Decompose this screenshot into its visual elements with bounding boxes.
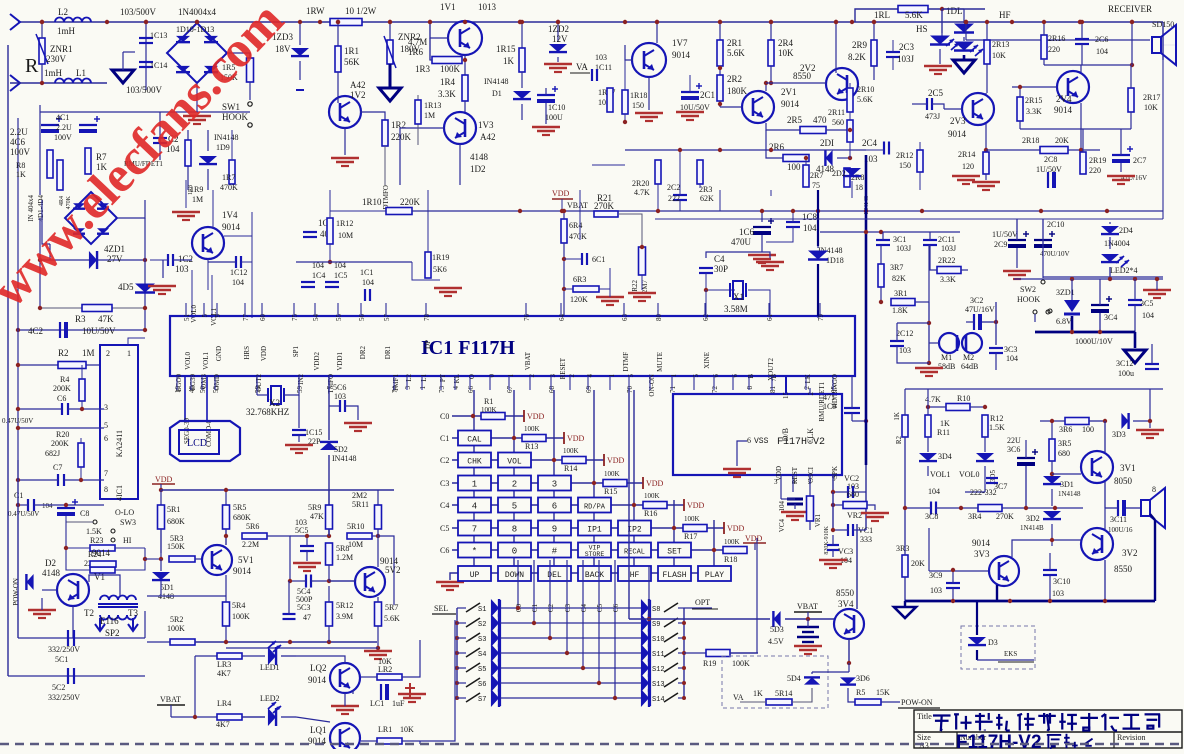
svg-text:1M: 1M	[192, 195, 203, 204]
svg-text:50: 50	[199, 386, 207, 394]
svg-text:2R4: 2R4	[778, 38, 794, 48]
svg-text:2C8: 2C8	[1044, 155, 1057, 164]
svg-text:333: 333	[860, 535, 872, 544]
svg-text:5.6K: 5.6K	[727, 48, 745, 58]
svg-text:471: 471	[823, 393, 835, 402]
svg-text:2R2: 2R2	[727, 74, 742, 84]
svg-text:6: 6	[747, 436, 751, 445]
svg-text:3C4: 3C4	[1104, 313, 1117, 322]
svg-text:67: 67	[506, 386, 514, 394]
svg-text:1M: 1M	[424, 111, 435, 120]
svg-text:1K: 1K	[940, 419, 950, 428]
svg-text:3C1: 3C1	[893, 235, 906, 244]
svg-text:53: 53	[212, 386, 220, 394]
svg-text:4K7: 4K7	[217, 669, 231, 678]
svg-text:KL: KL	[453, 374, 461, 383]
svg-text:2R1: 2R1	[727, 38, 742, 48]
svg-text:103J: 103J	[897, 54, 915, 64]
svg-text:104: 104	[334, 261, 346, 270]
svg-text:71: 71	[669, 386, 677, 394]
svg-text:5C2: 5C2	[52, 683, 65, 692]
svg-text:76: 76	[523, 314, 531, 322]
svg-text:L1: L1	[76, 68, 86, 78]
svg-text:S9: S9	[652, 621, 660, 629]
svg-text:F117H-V2: F117H-V2	[956, 732, 1042, 749]
svg-text:2.2U: 2.2U	[10, 127, 28, 137]
svg-text:2R7: 2R7	[810, 171, 823, 180]
svg-text:220K: 220K	[391, 132, 412, 142]
svg-text:470U: 470U	[731, 237, 752, 247]
svg-text:103: 103	[1052, 589, 1064, 598]
svg-text:3.9M: 3.9M	[336, 612, 353, 621]
svg-text:4C6: 4C6	[10, 137, 26, 147]
svg-text:2R3: 2R3	[699, 185, 712, 194]
svg-text:9014: 9014	[781, 99, 800, 109]
svg-text:VDD: VDD	[607, 456, 625, 465]
svg-text:12V: 12V	[552, 34, 568, 44]
svg-text:1V2: 1V2	[350, 90, 366, 100]
svg-text:1V1: 1V1	[440, 2, 456, 12]
svg-text:104: 104	[778, 501, 786, 512]
svg-text:70: 70	[626, 386, 634, 394]
svg-text:9014: 9014	[222, 222, 241, 232]
svg-text:270K: 270K	[996, 512, 1014, 521]
svg-text:5C3: 5C3	[297, 603, 310, 612]
svg-text:9014: 9014	[308, 675, 327, 685]
svg-text:3D6: 3D6	[856, 674, 870, 683]
svg-text:LK: LK	[804, 374, 812, 383]
svg-text:2R9: 2R9	[852, 40, 868, 50]
svg-text:LED1: LED1	[260, 663, 280, 672]
svg-text:4K7: 4K7	[216, 720, 230, 729]
svg-text:SW3: SW3	[120, 518, 136, 527]
svg-text:5.6K: 5.6K	[384, 614, 400, 623]
svg-text:7: 7	[472, 525, 477, 535]
svg-text:2V1: 2V1	[781, 87, 797, 97]
svg-text:6: 6	[731, 374, 739, 378]
svg-text:200K: 200K	[53, 384, 71, 393]
svg-text:2R18: 2R18	[1022, 136, 1039, 145]
svg-text:82K: 82K	[892, 274, 906, 283]
svg-text:1C6: 1C6	[739, 227, 755, 237]
svg-text:75: 75	[291, 314, 299, 322]
svg-text:1K: 1K	[893, 412, 901, 421]
svg-text:9014: 9014	[672, 50, 691, 60]
svg-text:3D1: 3D1	[1060, 480, 1074, 489]
svg-text:10M: 10M	[348, 540, 363, 549]
svg-text:IC1 F117H: IC1 F117H	[421, 337, 515, 359]
svg-text:A42: A42	[480, 132, 496, 142]
svg-text:1K: 1K	[503, 56, 515, 66]
svg-text:104: 104	[803, 223, 817, 233]
svg-text:R22: R22	[631, 280, 639, 292]
svg-text:R3: R3	[75, 314, 86, 324]
svg-text:VDD: VDD	[260, 346, 268, 361]
svg-text:100K: 100K	[232, 612, 250, 621]
svg-text:S13: S13	[652, 681, 665, 689]
svg-text:VC4: VC4	[778, 519, 786, 533]
svg-text:1C8: 1C8	[802, 212, 818, 222]
svg-text:1K: 1K	[16, 170, 26, 179]
svg-text:560: 560	[832, 118, 844, 127]
svg-text:C1: C1	[440, 434, 449, 443]
svg-text:1: 1	[419, 386, 427, 390]
svg-text:8050: 8050	[1114, 476, 1133, 486]
svg-text:SET: SET	[667, 548, 682, 557]
svg-text:3C8: 3C8	[925, 512, 938, 521]
svg-text:9: 9	[214, 314, 222, 318]
svg-text:4IC1: 4IC1	[115, 485, 124, 501]
svg-text:103J: 103J	[941, 244, 956, 253]
svg-text:120: 120	[962, 162, 974, 171]
svg-text:1C15: 1C15	[305, 428, 322, 437]
svg-text:CAL: CAL	[467, 436, 482, 445]
svg-text:2DI: 2DI	[820, 138, 834, 148]
svg-text:LC1: LC1	[370, 699, 384, 708]
svg-text:51: 51	[183, 314, 191, 322]
svg-text:C6: C6	[57, 394, 66, 403]
svg-text:0.47U/50V: 0.47U/50V	[8, 510, 39, 518]
svg-text:SP2: SP2	[105, 628, 120, 638]
svg-text:C1: C1	[531, 604, 539, 613]
svg-text:5V1: 5V1	[238, 555, 254, 565]
svg-text:VDD: VDD	[552, 189, 570, 198]
svg-text:3R7: 3R7	[890, 263, 903, 272]
svg-text:10K: 10K	[400, 725, 414, 734]
svg-text:#: #	[552, 547, 558, 557]
svg-text:72: 72	[711, 386, 719, 394]
svg-text:4148: 4148	[42, 568, 61, 578]
svg-text:5.6K: 5.6K	[857, 95, 873, 104]
svg-text:9014: 9014	[972, 538, 991, 548]
svg-text:100K: 100K	[604, 470, 620, 478]
svg-text:680: 680	[847, 490, 859, 499]
svg-text:332/250V: 332/250V	[48, 645, 80, 654]
svg-text:IN4148: IN4148	[484, 77, 508, 86]
svg-text:2R12: 2R12	[896, 151, 913, 160]
svg-text:/B: /B	[770, 374, 778, 381]
svg-text:HOOK: HOOK	[1017, 295, 1040, 304]
svg-text:100K: 100K	[732, 659, 750, 668]
svg-text:2C10: 2C10	[1047, 220, 1064, 229]
svg-text:S10: S10	[652, 636, 665, 644]
svg-text:VR1: VR1	[814, 514, 822, 528]
svg-text:C8: C8	[80, 509, 89, 518]
svg-text:103: 103	[930, 586, 942, 595]
svg-text:2.2M: 2.2M	[242, 540, 259, 549]
svg-text:470: 470	[813, 115, 827, 125]
svg-text:VR2: VR2	[847, 511, 862, 520]
svg-text:3.3K: 3.3K	[940, 275, 956, 284]
svg-text:R8: R8	[16, 161, 25, 170]
svg-text:1R15: 1R15	[496, 44, 516, 54]
svg-text:62: 62	[702, 314, 710, 322]
svg-text:2R11: 2R11	[828, 108, 845, 117]
svg-text:R2: R2	[895, 436, 903, 445]
svg-text:5R4: 5R4	[232, 601, 245, 610]
svg-text:1C5: 1C5	[334, 271, 347, 280]
svg-text:OPT: OPT	[695, 598, 710, 607]
svg-text:SP1: SP1	[292, 346, 300, 358]
svg-text:1D2: 1D2	[470, 164, 486, 174]
svg-text:S14: S14	[652, 696, 665, 704]
svg-text:74: 74	[391, 386, 399, 394]
svg-text:BACK: BACK	[585, 571, 604, 580]
svg-text:3: 3	[549, 374, 557, 378]
svg-text:222: 222	[668, 194, 680, 203]
svg-text:1C12: 1C12	[230, 268, 247, 277]
svg-text:XINE: XINE	[703, 352, 711, 369]
svg-text:2C2: 2C2	[667, 183, 680, 192]
svg-text:3V1: 3V1	[1120, 463, 1136, 473]
svg-text:SEL: SEL	[434, 604, 448, 613]
svg-text:2C4: 2C4	[862, 138, 878, 148]
svg-text:4148: 4148	[470, 152, 489, 162]
svg-text:9014: 9014	[92, 548, 111, 558]
svg-text:D2: D2	[45, 558, 56, 568]
svg-text:C3: C3	[440, 479, 449, 488]
svg-text:100U/16: 100U/16	[1108, 526, 1133, 534]
svg-text:CLK: CLK	[806, 428, 815, 444]
svg-text:10U/50V: 10U/50V	[680, 103, 710, 112]
svg-text:2C7: 2C7	[1133, 156, 1146, 165]
svg-text:5R9: 5R9	[308, 503, 321, 512]
svg-text:S4: S4	[478, 651, 486, 659]
svg-text:LQ2: LQ2	[310, 663, 327, 673]
svg-text:E116: E116	[100, 616, 119, 626]
svg-text:VDD: VDD	[155, 475, 173, 484]
svg-text:20K: 20K	[1055, 136, 1069, 145]
svg-text:3: 3	[774, 478, 778, 486]
svg-text:1C13: 1C13	[150, 31, 167, 40]
svg-text:60: 60	[259, 314, 267, 322]
svg-text:47U/16V: 47U/16V	[965, 305, 995, 314]
svg-text:64dB: 64dB	[961, 362, 978, 371]
svg-text:C4: C4	[440, 501, 449, 510]
svg-text:2R20: 2R20	[632, 179, 649, 188]
svg-text:1C14: 1C14	[150, 61, 167, 70]
svg-text:100K: 100K	[481, 406, 497, 414]
svg-text:5R8: 5R8	[336, 544, 349, 553]
svg-text:VDD: VDD	[527, 412, 545, 421]
svg-text:5C1: 5C1	[55, 655, 68, 664]
svg-text:104: 104	[928, 487, 940, 496]
svg-text:3.3K: 3.3K	[438, 89, 456, 99]
svg-text:1mH: 1mH	[57, 26, 76, 36]
svg-text:2R19: 2R19	[1089, 156, 1106, 165]
svg-text:18: 18	[855, 183, 863, 192]
svg-text:150: 150	[899, 161, 911, 170]
svg-text:47K: 47K	[310, 512, 324, 521]
svg-text:HRS: HRS	[243, 346, 251, 360]
svg-text:1C2: 1C2	[178, 254, 193, 264]
svg-text:1.8K: 1.8K	[892, 306, 908, 315]
svg-text:5D4: 5D4	[787, 674, 801, 683]
svg-text:3C12: 3C12	[1116, 359, 1133, 368]
svg-text:8: 8	[104, 485, 108, 494]
svg-text:2C9: 2C9	[994, 240, 1007, 249]
svg-text:5R10: 5R10	[347, 522, 364, 531]
svg-text:59: 59	[296, 386, 304, 394]
svg-text:55: 55	[335, 314, 343, 322]
svg-text:2: 2	[512, 480, 517, 490]
svg-text:1000U/10V: 1000U/10V	[1075, 337, 1113, 346]
svg-text:100u: 100u	[1118, 369, 1134, 378]
svg-text:1.2M: 1.2M	[336, 553, 353, 562]
svg-text:C4: C4	[714, 254, 725, 264]
svg-text:1R10: 1R10	[362, 197, 382, 207]
svg-text:SD150: SD150	[1152, 20, 1174, 29]
svg-text:100U: 100U	[545, 113, 563, 122]
svg-text:STORE: STORE	[585, 551, 605, 558]
svg-text:9014: 9014	[948, 129, 967, 139]
svg-text:220: 220	[1048, 45, 1060, 54]
svg-text:UP: UP	[470, 571, 480, 580]
svg-text:VDD: VDD	[745, 534, 763, 543]
svg-text:Revision: Revision	[1117, 733, 1145, 742]
svg-text:100V: 100V	[10, 147, 31, 157]
svg-text:230V: 230V	[46, 54, 67, 64]
svg-text:4ZD1: 4ZD1	[104, 244, 125, 254]
svg-text:FLASH: FLASH	[662, 571, 686, 580]
svg-text:100K: 100K	[644, 492, 660, 500]
svg-text:57: 57	[383, 314, 391, 322]
svg-text:222-332: 222-332	[970, 488, 997, 497]
svg-text:1C4: 1C4	[312, 271, 325, 280]
svg-text:1R19: 1R19	[432, 253, 449, 262]
svg-text:B: B	[747, 374, 755, 379]
svg-text:0.47U/50V: 0.47U/50V	[2, 417, 33, 425]
svg-text:9014: 9014	[1054, 105, 1073, 115]
svg-text:100K: 100K	[563, 447, 579, 455]
svg-text:M2: M2	[963, 353, 974, 362]
svg-text:2: 2	[528, 374, 536, 378]
svg-text:VBAT: VBAT	[160, 695, 181, 704]
svg-text:470K: 470K	[569, 232, 587, 241]
svg-text:10U/50V: 10U/50V	[82, 326, 116, 336]
svg-text:75: 75	[812, 181, 820, 190]
svg-text:CHK: CHK	[467, 458, 482, 467]
svg-text:104: 104	[42, 502, 53, 510]
svg-text:S12: S12	[652, 666, 665, 674]
svg-text:3C11: 3C11	[1110, 515, 1127, 524]
svg-text:470U/10V: 470U/10V	[1040, 250, 1070, 258]
svg-text:10K: 10K	[1144, 103, 1158, 112]
svg-text:RECAL: RECAL	[624, 549, 645, 557]
svg-text:R5: R5	[856, 688, 865, 697]
svg-text:DR1: DR1	[384, 346, 392, 360]
svg-text:5D2: 5D2	[334, 445, 348, 454]
svg-text:R10: R10	[957, 394, 970, 403]
svg-text:5R1: 5R1	[167, 505, 180, 514]
svg-text:3C5: 3C5	[1140, 299, 1153, 308]
svg-text:5R2: 5R2	[170, 615, 183, 624]
svg-text:IN 404x4: IN 404x4	[27, 195, 35, 222]
svg-text:5R6: 5R6	[246, 522, 259, 531]
svg-text:EKS: EKS	[1004, 650, 1017, 658]
svg-text:3D2: 3D2	[1026, 514, 1040, 523]
svg-text:1R13: 1R13	[424, 101, 441, 110]
svg-text:104: 104	[1096, 47, 1108, 56]
svg-text:64: 64	[558, 314, 566, 322]
svg-text:VOL: VOL	[507, 458, 522, 467]
svg-text:POW-ON: POW-ON	[901, 698, 933, 707]
svg-text:5R7: 5R7	[385, 603, 398, 612]
svg-text:2C6: 2C6	[1095, 35, 1108, 44]
svg-text:2R5: 2R5	[787, 115, 803, 125]
svg-text:3V3: 3V3	[974, 549, 990, 559]
svg-text:8: 8	[512, 525, 517, 535]
svg-text:1ZD2: 1ZD2	[548, 24, 569, 34]
svg-text:VC3: VC3	[838, 547, 853, 556]
svg-text:56: 56	[358, 314, 366, 322]
svg-text:A42: A42	[350, 80, 366, 90]
svg-text:GND: GND	[215, 346, 223, 361]
svg-text:VDD: VDD	[687, 501, 705, 510]
svg-text:4.7M: 4.7M	[408, 37, 427, 47]
svg-text:3D5: 3D5	[989, 470, 997, 483]
svg-text:120K: 120K	[570, 295, 588, 304]
svg-text:5D3: 5D3	[770, 625, 784, 634]
svg-text:LR3: LR3	[217, 660, 231, 669]
svg-text:S7: S7	[478, 696, 486, 704]
svg-text:100K: 100K	[440, 64, 461, 74]
svg-text:HI: HI	[123, 536, 132, 545]
svg-text:6: 6	[552, 502, 557, 512]
svg-text:3D3: 3D3	[1112, 430, 1126, 439]
svg-text:6R3: 6R3	[573, 275, 586, 284]
svg-text:3R3: 3R3	[896, 544, 909, 553]
svg-text:1.5K: 1.5K	[86, 527, 102, 536]
svg-text:3C10: 3C10	[1053, 577, 1070, 586]
svg-text:2R17: 2R17	[1143, 93, 1160, 102]
svg-text:*: *	[472, 547, 477, 557]
svg-text:8550: 8550	[836, 588, 855, 598]
svg-text:2: 2	[106, 349, 110, 358]
svg-text:DR2: DR2	[359, 346, 367, 360]
svg-text:1M: 1M	[82, 348, 95, 358]
svg-text:3R6: 3R6	[1059, 425, 1072, 434]
svg-text:10M: 10M	[338, 231, 353, 240]
svg-text:LQ1: LQ1	[310, 725, 327, 735]
svg-text:81: 81	[769, 386, 777, 394]
svg-text:DTMF: DTMF	[622, 352, 630, 372]
svg-text:R: R	[25, 55, 39, 77]
svg-text:1N4004x4: 1N4004x4	[178, 7, 216, 17]
svg-text:470K: 470K	[220, 183, 238, 192]
svg-text:LR2: LR2	[378, 665, 392, 674]
svg-text:IP1: IP1	[587, 526, 602, 535]
svg-text:VDD1: VDD1	[336, 352, 344, 371]
svg-text:58dB: 58dB	[938, 362, 955, 371]
svg-text:D3: D3	[988, 638, 998, 647]
svg-text:220K: 220K	[400, 197, 421, 207]
svg-text:PLAY: PLAY	[705, 571, 724, 580]
svg-text:1N4148: 1N4148	[1058, 490, 1081, 498]
svg-text:180K: 180K	[727, 86, 748, 96]
svg-text:VSS: VSS	[754, 437, 769, 446]
svg-text:1: 1	[608, 374, 616, 378]
svg-text:2R16: 2R16	[1048, 34, 1065, 43]
svg-text:IN4148: IN4148	[214, 133, 238, 142]
svg-text:100K: 100K	[724, 538, 740, 546]
svg-text:1C9: 1C9	[823, 402, 836, 411]
svg-text:3D4: 3D4	[938, 452, 952, 461]
svg-text:62K: 62K	[700, 194, 714, 203]
svg-text:VOL0: VOL0	[959, 470, 979, 479]
svg-text:8: 8	[1152, 485, 1156, 494]
svg-text:3R5: 3R5	[1058, 439, 1071, 448]
